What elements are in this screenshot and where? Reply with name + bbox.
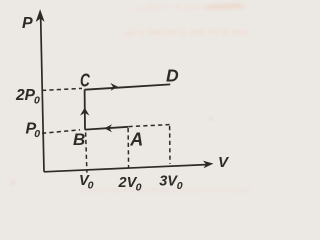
left arrowhead on AB	[104, 124, 112, 132]
dashed vertical at 2V0 below A	[127, 128, 130, 168]
paper grain	[0, 0, 252, 195]
svg-text:3V: 3V	[159, 173, 178, 189]
y-axis arrowhead	[36, 9, 45, 22]
svg-text:0: 0	[88, 179, 94, 191]
bleed-through smudge bottom strip	[12, 118, 250, 191]
dashed horizontal from A to 3V0	[129, 125, 170, 127]
x-axis arrowhead	[203, 161, 213, 169]
svg-text:0: 0	[34, 128, 40, 140]
dashed line 2P0 level to C	[42, 88, 82, 90]
svg-text:2V: 2V	[118, 175, 138, 191]
process line A to B (isobaric at P0)	[85, 127, 128, 130]
svg-text:P: P	[22, 15, 33, 32]
x-axis (V axis)	[44, 165, 206, 172]
bleed-through smudge row top-right	[125, 6, 251, 35]
up arrowhead on BC	[80, 108, 89, 116]
svg-text:B: B	[73, 130, 85, 149]
svg-text:0: 0	[136, 181, 142, 193]
y-axis (P axis)	[41, 14, 44, 172]
process line C to D (isobaric at 2P0)	[85, 84, 171, 89]
process line B to C (vertical, isochoric)	[84, 90, 86, 130]
right arrowhead on CD	[110, 83, 118, 91]
svg-text:C: C	[80, 69, 90, 90]
svg-text:A: A	[129, 130, 143, 150]
svg-text:0: 0	[177, 180, 183, 192]
dashed vertical at V0 below B	[86, 133, 87, 173]
svg-text:D: D	[166, 65, 179, 85]
svg-text:2P: 2P	[15, 87, 36, 104]
P-V thermodynamic diagram (scanned textbook figure)	[0, 0, 252, 195]
dashed line P0 level to B	[42, 130, 80, 134]
dashed vertical at 3V0	[169, 126, 171, 164]
svg-text:0: 0	[34, 95, 40, 107]
